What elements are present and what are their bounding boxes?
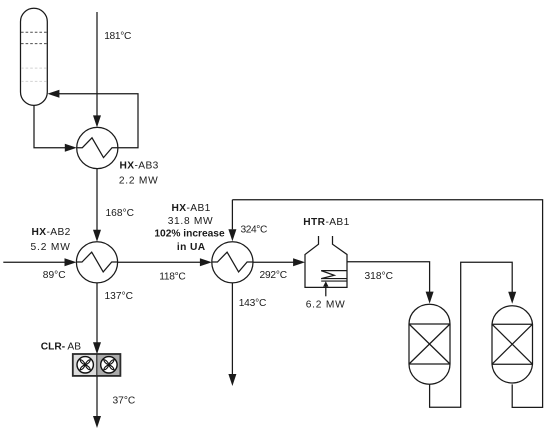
wire HX-AB2 to HX-AB1 118C (118, 258, 212, 266)
svg-text:118°C: 118°C (159, 272, 185, 283)
wire cold feed into HX-AB2 89C (3, 258, 76, 266)
svg-text:in UA: in UA (177, 242, 206, 253)
svg-text:HX-AB3: HX-AB3 (120, 161, 159, 172)
svg-text:181°C: 181°C (104, 31, 131, 42)
reactor R2 (492, 306, 533, 383)
svg-text:HX-AB1: HX-AB1 (172, 203, 211, 214)
svg-text:318°C: 318°C (365, 271, 393, 282)
heat exchanger HX-AB2 (76, 242, 117, 283)
fired heater HTR-AB1 (305, 236, 347, 287)
heat exchanger HX-AB1 (212, 242, 253, 283)
svg-text:137°C: 137°C (105, 291, 133, 302)
svg-text:89°C: 89°C (43, 270, 66, 281)
wire HX-AB1 to HTR-AB1 292C (253, 258, 305, 266)
wire HX-AB3 right return to column (47, 90, 138, 148)
svg-text:102% increase: 102% increase (154, 228, 225, 239)
wire HX-AB2 bottom 137C to cooler (93, 283, 101, 354)
column vessel (21, 8, 48, 105)
wire reactor R1 outlet to reactor R2 (430, 262, 517, 407)
wire duty arrow 6.2 MW into heater (323, 281, 328, 296)
wire hot return into HX-AB1 top 324C (228, 200, 236, 242)
wire reactor R2 outlet recycle to HX-AB1 (232, 200, 542, 408)
svg-text:324°C: 324°C (241, 225, 267, 236)
wire HX-AB1 bottom 143C outlet (228, 283, 236, 386)
svg-text:37°C: 37°C (113, 396, 136, 407)
svg-text:2.2 MW: 2.2 MW (119, 175, 159, 186)
reactor R1 (409, 304, 450, 384)
svg-text:CLR- AB: CLR- AB (41, 342, 81, 353)
wire HTR-AB1 outlet 318C to reactor R1 (347, 262, 434, 304)
wire main vertical feed 181C into HX-AB3 (93, 12, 101, 127)
svg-text:6.2 MW: 6.2 MW (306, 300, 346, 311)
wire cooler outlet 37C (93, 376, 101, 428)
svg-text:5.2 MW: 5.2 MW (31, 242, 71, 253)
svg-text:HTR-AB1: HTR-AB1 (303, 217, 349, 228)
svg-text:292°C: 292°C (260, 270, 287, 281)
wire HX-AB3 bottom to HX-AB2 168C (93, 169, 101, 242)
svg-text:HX-AB2: HX-AB2 (32, 227, 71, 238)
svg-text:31.8 MW: 31.8 MW (168, 216, 214, 227)
svg-text:168°C: 168°C (106, 208, 134, 219)
air cooler CLR-AB (73, 354, 121, 376)
svg-text:143°C: 143°C (239, 298, 266, 309)
heat exchanger HX-AB3 (77, 127, 118, 168)
wire column bottoms to HX-AB3 left (34, 105, 77, 151)
